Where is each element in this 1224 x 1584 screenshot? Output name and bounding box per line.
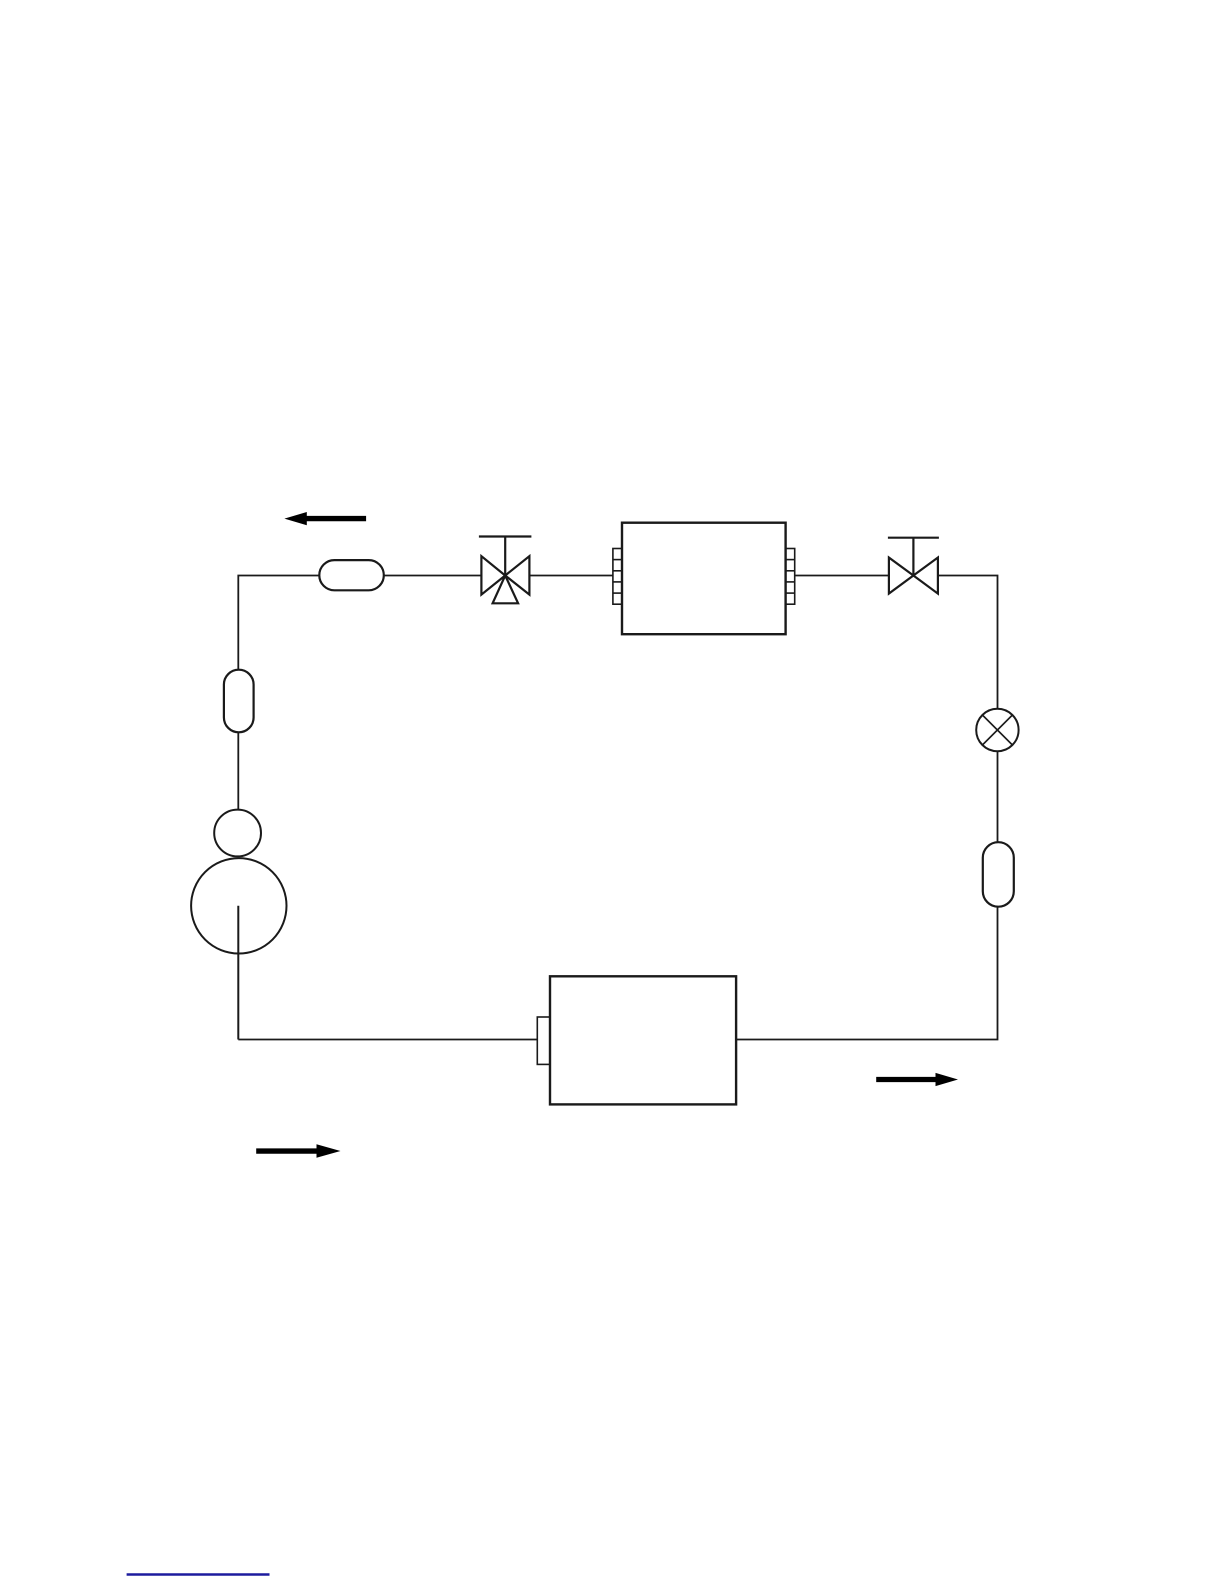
compressor motor head (small circle) (214, 810, 261, 857)
wire: valve V1 to condenser (529, 575, 613, 577)
wire: sight glass to filter-drier (997, 751, 999, 842)
wire: top pipe, left corner to capsule (238, 576, 319, 670)
wire: evaporator to left corner, up to compressor (238, 1039, 537, 1041)
condenser HX1 (finned box) (613, 523, 795, 635)
evaporator inlet tab (537, 1017, 550, 1064)
condenser left fin block (613, 549, 622, 605)
muffler M1 (horizontal capsule on top pipe) (319, 560, 384, 590)
wire: filter-drier down to bottom corner, left to evaporator (736, 907, 997, 1040)
condenser right fin block (786, 549, 795, 605)
flow arrow top-left (pointing left) (284, 512, 366, 525)
wire: capsule to valve V1 (384, 575, 482, 577)
wire: condenser to valve V2 (795, 575, 889, 577)
flow arrow bottom-left (pointing right) (256, 1144, 340, 1158)
compressor CP (large circle with discharge line) (191, 858, 286, 1039)
footer hyperlink underline (blue) (127, 1573, 270, 1576)
flow arrow bottom-right (pointing right) (876, 1073, 958, 1086)
filter-drier FD (vertical capsule) (983, 842, 1014, 907)
wire: valve V2 to right corner, down to sight glass (938, 576, 998, 709)
sight glass SG (circle with X) (976, 709, 1018, 751)
valve V1 (3-way service valve with stem and handle) (479, 537, 532, 604)
valve V2 (shut-off valve with stem and handle) (888, 538, 939, 594)
wire: accumulator to compressor head (237, 732, 239, 810)
accumulator AC (vertical capsule on left leg) (224, 670, 254, 733)
evaporator HX2 (box with inlet tab) (537, 976, 736, 1104)
